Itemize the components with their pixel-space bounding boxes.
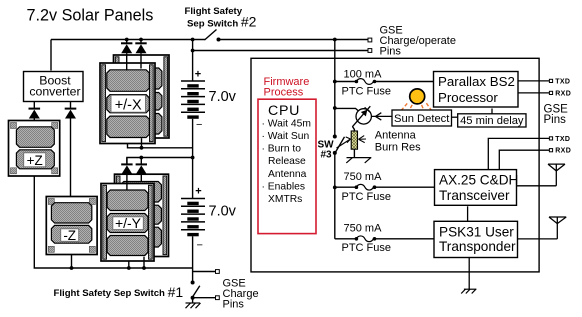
svg-text:· Wait Sun: · Wait Sun (262, 131, 310, 142)
svg-text:Flight Safety: Flight Safety (185, 6, 243, 17)
arrow burn left (337, 137, 351, 148)
diode D2 (65, 102, 77, 197)
wire transceiver to transponder (467, 206, 469, 223)
node junction diode D4 (139, 38, 143, 42)
svg-text:· Wait 45m: · Wait 45m (262, 118, 311, 129)
node junction X panels (140, 146, 144, 150)
wire GSE operate line (193, 50, 368, 52)
wire top bus right segment (219, 39, 368, 41)
wire -Z panel bottom lead (71, 255, 73, 268)
wire X back panel bottom lead (141, 138, 143, 148)
svg-text:Burn Res: Burn Res (375, 141, 421, 153)
pin RXD2 (549, 149, 552, 152)
svg-text:+: + (195, 186, 201, 198)
label Flight Safety Sep Switch #2 (185, 6, 257, 29)
antenna A2 (518, 217, 567, 239)
wire RXD1 (518, 92, 549, 94)
wire sun detect to delay (452, 116, 458, 118)
diode D1 (29, 102, 41, 121)
svg-text:Transponder: Transponder (439, 239, 516, 254)
block AX.25 C&DH Transceiver (435, 170, 519, 206)
svg-text:+Z: +Z (27, 153, 43, 168)
svg-text:TXD: TXD (555, 78, 570, 85)
solar panel -Z (46, 197, 97, 255)
arrow sun detect (371, 113, 392, 120)
svg-text:7.0v: 7.0v (209, 204, 237, 220)
svg-text:Process: Process (264, 87, 304, 99)
svg-text:PTC Fuse: PTC Fuse (342, 86, 392, 98)
wire TXD1 (518, 80, 549, 82)
node junction Y diode D6 (139, 156, 143, 160)
antenna A1 (517, 164, 566, 186)
wire top bus left segment (51, 39, 205, 41)
sun symbol (401, 89, 432, 113)
node junction fuse F2 (333, 186, 337, 190)
node junction -Z bottom (70, 266, 74, 270)
svg-text:Transceiver: Transceiver (439, 188, 510, 203)
pin TXD1 (549, 79, 552, 82)
svg-text:45 min delay: 45 min delay (460, 115, 524, 127)
label 750 mA PTC Fuse 2 (342, 222, 392, 254)
svg-text:750 mA: 750 mA (344, 171, 383, 183)
wire boost input riser (50, 40, 52, 71)
svg-text:TXD: TXD (555, 136, 570, 143)
node junction diode D3 (125, 38, 129, 42)
wire battery B2 top lead (192, 158, 194, 199)
svg-text:· Enables: · Enables (262, 181, 306, 192)
block Boost converter (24, 72, 84, 102)
svg-text:Antenna: Antenna (375, 130, 417, 142)
block 45 min delay (458, 114, 526, 127)
ground transponder (461, 289, 476, 293)
wire main vertical lower (334, 153, 336, 239)
switch SW2 blade (205, 30, 217, 41)
fuse F3 750mA (335, 236, 434, 242)
label Antenna Burn Res (375, 130, 421, 154)
diode D5 (121, 158, 132, 191)
svg-text:−: − (197, 240, 203, 252)
pin TXD2 (549, 137, 552, 140)
svg-text:Pins: Pins (544, 114, 567, 126)
node junction LED branch (333, 106, 337, 110)
node junction Y back bottom (142, 266, 146, 270)
block Parallax BS2 Processor (434, 72, 519, 108)
wire SW1 ground lead (192, 298, 194, 303)
switch SW3 (333, 135, 345, 155)
svg-text:CPU: CPU (268, 103, 300, 119)
svg-text:converter: converter (29, 85, 80, 99)
svg-text:-Z: -Z (63, 228, 76, 243)
pin GSE charge 1 (216, 270, 220, 274)
wire transponder ground lead (468, 258, 470, 290)
pin RXD1 (549, 91, 552, 94)
fuse F2 750mA (335, 184, 435, 190)
label GSE Pins right (544, 104, 569, 127)
wire processor to delay (491, 109, 493, 114)
block Sun Detect (392, 110, 452, 126)
label GSE Charge Pins (223, 278, 259, 311)
wire Y diode bus (127, 156, 195, 164)
svg-text:Antenna: Antenna (268, 169, 307, 180)
switch SW1 (191, 268, 200, 300)
ground burn res (346, 158, 371, 163)
wire battery B1 top lead (192, 40, 194, 82)
svg-text:Release: Release (268, 156, 306, 167)
svg-text:XMTRs: XMTRs (268, 194, 302, 205)
fuse F1 100mA (335, 79, 434, 85)
diode D3 (121, 40, 132, 71)
wire battery B1 bottom lead (192, 119, 194, 158)
label 750 mA PTC Fuse 1 (342, 171, 392, 203)
enclosure spacecraft box (251, 58, 539, 272)
solar panel +Z (9, 121, 60, 177)
label GSE Charge/operate Pins (380, 25, 456, 58)
node junction main vertical (333, 38, 337, 42)
solar panel +/-Y front (101, 184, 154, 262)
wire Y front panel bottom lead (128, 261, 130, 268)
node junction battery B1 (191, 38, 195, 42)
block CPU firmware box (258, 99, 316, 233)
wire RXD2 (499, 150, 549, 170)
solar panel +/-Y back (115, 174, 169, 256)
battery B1 (181, 69, 205, 132)
diode D4 (135, 40, 146, 69)
wire battery B2 bottom lead (192, 236, 194, 268)
LED sun detector (352, 106, 371, 127)
node junction Y front bottom (127, 266, 131, 270)
svg-text:Parallax BS2: Parallax BS2 (438, 74, 515, 89)
block PSK31 User Transponder (434, 221, 518, 257)
svg-text:· Burn to: · Burn to (262, 144, 302, 155)
node junction battery B2 top (191, 156, 195, 160)
svg-text:+: + (195, 69, 201, 81)
pin GSE charge 2 (216, 296, 220, 300)
svg-text:Pins: Pins (223, 298, 245, 310)
svg-text:Pins: Pins (380, 46, 402, 58)
wire GSE charge stub 1 (193, 271, 216, 273)
wire GSE charge stub 2 (193, 297, 216, 299)
wire LED branch (335, 108, 359, 111)
node junction fuse F1 (333, 80, 337, 84)
svg-text:Sun Detect: Sun Detect (394, 113, 450, 125)
label Firmware Process (264, 76, 310, 99)
solar panel +/-X front (100, 63, 155, 144)
pin GSE charge/operate 1 (368, 38, 372, 42)
svg-text:Processor: Processor (438, 90, 498, 105)
svg-text:RXD: RXD (555, 90, 571, 97)
wire bottom bus (34, 176, 192, 270)
resistor antenna burn res (351, 131, 357, 149)
wire main vertical feed (334, 40, 336, 137)
svg-text:#3: #3 (321, 149, 333, 160)
svg-text:PTC Fuse: PTC Fuse (342, 191, 392, 203)
wire Y back panel bottom lead (143, 257, 145, 268)
svg-text:750 mA: 750 mA (344, 222, 383, 234)
label 100 mA PTC Fuse (342, 68, 392, 97)
switch SW2 contact dot (217, 38, 221, 42)
svg-text:AX.25 C&DH: AX.25 C&DH (439, 172, 518, 187)
wire LED to resistor (353, 127, 355, 132)
wire resistor ground lead (353, 149, 355, 157)
svg-text:+/-X: +/-X (115, 97, 142, 113)
pin GSE charge/operate 2 (368, 49, 372, 53)
wire X panels bottom to node (128, 138, 193, 150)
battery B2 (181, 186, 205, 252)
svg-text:−: − (196, 119, 202, 131)
svg-text:7.2v Solar Panels: 7.2v Solar Panels (27, 6, 154, 24)
solar panel +/-X back (114, 55, 170, 138)
node junction GSE operate (191, 49, 195, 53)
svg-text:RXD: RXD (555, 148, 571, 155)
diode D6 (136, 158, 147, 182)
arrow burn right (359, 136, 367, 143)
ground SW1 (186, 303, 201, 308)
svg-text:PTC Fuse: PTC Fuse (342, 242, 392, 254)
wire TXD2 (488, 138, 549, 170)
svg-text:+/-Y: +/-Y (115, 215, 142, 231)
svg-text:7.0v: 7.0v (209, 89, 237, 105)
label SW #3 (318, 139, 335, 160)
svg-text:PSK31 User: PSK31 User (439, 224, 514, 239)
